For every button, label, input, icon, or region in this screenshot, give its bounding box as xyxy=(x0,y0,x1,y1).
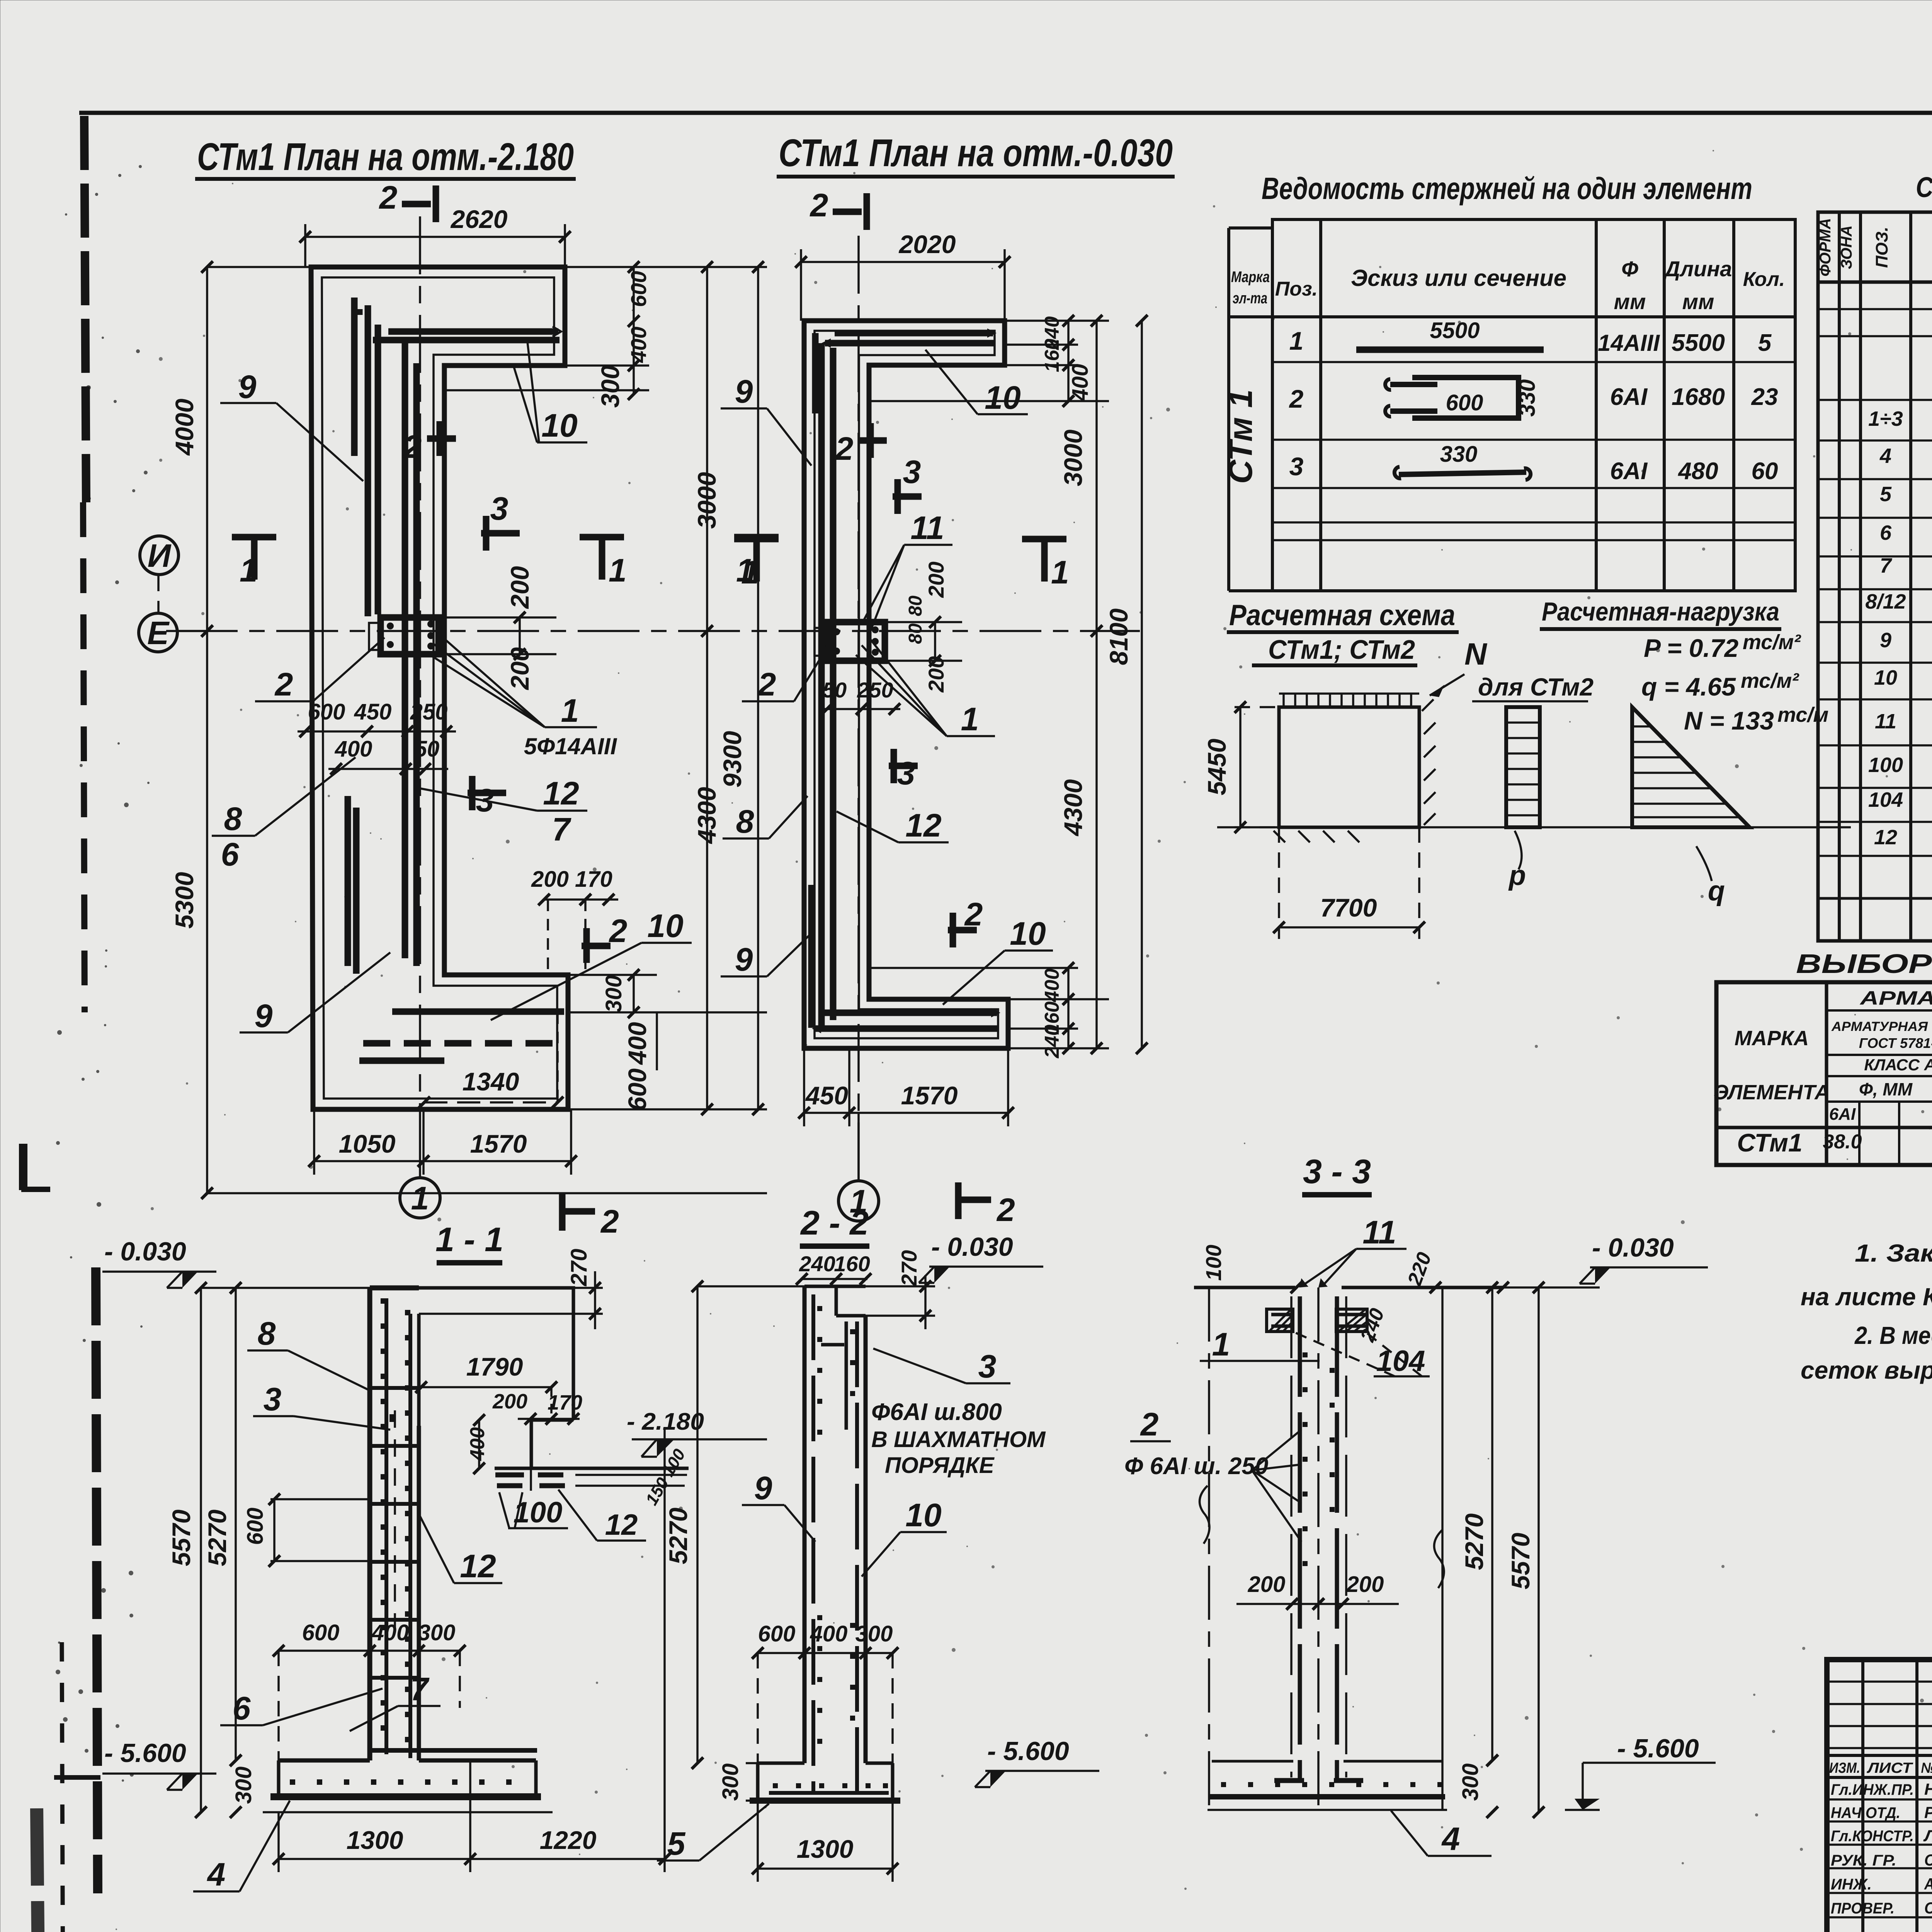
plan2 grid axis 1 xyxy=(857,236,860,1181)
svg-text:АРМАТУРНЫЕ ИЗДЕЛИЯ: АРМАТУРНЫЕ ИЗДЕЛИЯ xyxy=(1859,987,1932,1009)
plan1 section2 marker top xyxy=(379,179,436,222)
spec rows data xyxy=(1868,407,1932,430)
svg-text:- 0.030: - 0.030 xyxy=(931,1232,1013,1262)
plan2 marker 3 mid xyxy=(893,454,922,514)
svg-text:5500: 5500 xyxy=(1672,330,1725,356)
plan2 marker 2 mid xyxy=(835,423,887,467)
svg-text:104: 104 xyxy=(1868,788,1903,811)
svg-text:10: 10 xyxy=(647,908,683,944)
svg-text:1: 1 xyxy=(411,1180,429,1216)
svg-text:14АIII: 14АIII xyxy=(1598,330,1660,356)
plan2 dim 2020 top xyxy=(795,230,1010,321)
svg-text:7700: 7700 xyxy=(1320,893,1377,922)
section2 label 3 f6AI xyxy=(871,1348,1046,1478)
svg-text:1300: 1300 xyxy=(797,1835,854,1863)
svg-text:2 - 2: 2 - 2 xyxy=(800,1204,869,1242)
vedomost row1 xyxy=(1289,318,1772,356)
svg-text:2: 2 xyxy=(403,429,422,465)
load diagram q xyxy=(1632,707,1750,906)
svg-text:10: 10 xyxy=(541,407,577,444)
svg-text:400: 400 xyxy=(810,1621,848,1646)
svg-text:- 0.030: - 0.030 xyxy=(104,1237,186,1266)
svg-text:160: 160 xyxy=(1041,339,1063,372)
plan2 rebar top flange xyxy=(821,328,997,348)
plan2 rebar web xyxy=(811,333,833,1028)
section1 wall and slab outline xyxy=(263,1288,689,1812)
section1 inner rebar lines xyxy=(371,1298,537,1758)
svg-text:12: 12 xyxy=(543,775,579,811)
section3 embedded plates xyxy=(1267,1305,1389,1345)
svg-text:мм: мм xyxy=(1614,289,1646,314)
svg-text:3000: 3000 xyxy=(1059,429,1087,486)
grid bubble И xyxy=(140,536,179,612)
svg-text:1220: 1220 xyxy=(540,1826,597,1854)
section3 level -0.030 xyxy=(1580,1233,1708,1284)
svg-text:Расчетная-нагрузка: Расчетная-нагрузка xyxy=(1542,597,1779,626)
svg-text:80: 80 xyxy=(905,623,926,644)
plan1 marker 3 lower xyxy=(468,776,514,818)
svg-text:12: 12 xyxy=(1874,826,1897,849)
plan1 dims 600 450 250 xyxy=(298,699,456,775)
svg-text:400: 400 xyxy=(626,327,651,363)
svg-text:- 0.030: - 0.030 xyxy=(1592,1233,1674,1262)
svg-text:5500: 5500 xyxy=(1430,318,1480,343)
svg-text:ЗОНА: ЗОНА xyxy=(1838,225,1855,269)
plan1 label 9 lower xyxy=(240,952,390,1034)
svg-text:4: 4 xyxy=(1441,1821,1460,1857)
section1 dim 270 xyxy=(566,1249,603,1329)
svg-text:ЭЛЕМЕНТА: ЭЛЕМЕНТА xyxy=(1714,1081,1830,1104)
svg-text:12: 12 xyxy=(460,1548,496,1584)
section1 dims 200 170 xyxy=(492,1390,582,1425)
svg-text:ЛИСТ: ЛИСТ xyxy=(1866,1760,1913,1776)
svg-text:2. В местах технологических: 2. В местах технологических отверстий ар… xyxy=(1854,1321,1932,1349)
section3 break marks xyxy=(1200,1486,1444,1588)
plan1 section1 T markers xyxy=(232,537,276,588)
svg-text:ЛАПКИН: ЛАПКИН xyxy=(1923,1827,1932,1845)
svg-text:200: 200 xyxy=(1248,1572,1286,1597)
svg-text:11: 11 xyxy=(1362,1214,1396,1250)
svg-text:5270: 5270 xyxy=(664,1507,692,1564)
raschet dim 7700 xyxy=(1273,827,1425,939)
section1 label 3 xyxy=(253,1381,390,1430)
svg-text:p: p xyxy=(1508,860,1526,891)
svg-text:СТм1 План на отм.-0.030: СТм1 План на отм.-0.030 xyxy=(779,131,1173,175)
svg-text:ГОСТ 5781-75: ГОСТ 5781-75 xyxy=(1859,1035,1932,1051)
svg-text:тс/м²: тс/м² xyxy=(1741,669,1799,692)
nagruzka values xyxy=(1641,631,1828,735)
svg-text:11: 11 xyxy=(910,510,944,546)
plan2 right dims 160 240 400 bottom xyxy=(804,962,1109,1058)
svg-text:Марка: Марка xyxy=(1231,269,1270,286)
svg-text:3: 3 xyxy=(897,755,915,791)
plan1 grid axis E line xyxy=(176,630,1140,632)
svg-text:240: 240 xyxy=(1356,1305,1389,1345)
plan1 right dim 9300 xyxy=(568,261,767,1115)
svg-text:100: 100 xyxy=(1201,1245,1226,1281)
titleblock left columns xyxy=(1827,1660,1932,1932)
svg-text:КЛАСС А-I: КЛАСС А-I xyxy=(1864,1056,1932,1074)
section2 level -0.030 xyxy=(919,1232,1043,1283)
vedomost row2 sketch xyxy=(1289,378,1778,418)
svg-text:160: 160 xyxy=(834,1252,870,1276)
vedomost row3 sketch xyxy=(1289,442,1778,485)
svg-text:Длина: Длина xyxy=(1663,257,1732,281)
svg-text:9300: 9300 xyxy=(718,731,747,787)
svg-text:4300: 4300 xyxy=(1059,779,1087,837)
section2 dim 270 xyxy=(866,1250,935,1329)
svg-text:11: 11 xyxy=(1875,710,1896,733)
section2 label 5 xyxy=(657,1804,769,1862)
svg-text:Поз.: Поз. xyxy=(1275,278,1318,300)
section3 wall rebar dots xyxy=(1303,1352,1335,1566)
section3 label 104 xyxy=(1294,1332,1430,1378)
svg-text:Ведомость стержней на один эле: Ведомость стержней на один элемент xyxy=(1262,171,1752,206)
svg-text:200: 200 xyxy=(492,1390,527,1413)
plan2 bottom dim 450 1570 xyxy=(798,1048,1014,1126)
svg-text:300: 300 xyxy=(718,1764,743,1801)
svg-text:600: 600 xyxy=(623,1068,651,1111)
svg-text:240: 240 xyxy=(1041,1025,1063,1059)
svg-text:8/12: 8/12 xyxy=(1865,590,1906,613)
svg-text:ФОРМА: ФОРМА xyxy=(1817,218,1834,276)
grid bubble Е xyxy=(139,613,177,652)
svg-text:5: 5 xyxy=(1758,330,1772,356)
svg-text:3000: 3000 xyxy=(692,472,721,529)
plan1 dims 200 200 column xyxy=(440,566,556,690)
plan2 label 2 column xyxy=(742,641,831,702)
section1 wall rungs xyxy=(372,1388,417,1678)
plan2 label 11 xyxy=(862,510,952,634)
plan1 marker 2 bottom xyxy=(562,1194,619,1240)
svg-text:6: 6 xyxy=(1880,521,1892,544)
svg-text:7: 7 xyxy=(1880,554,1893,577)
svg-text:5: 5 xyxy=(1880,483,1892,506)
svg-text:7: 7 xyxy=(410,1671,430,1707)
svg-text:РУК. ГР.: РУК. ГР. xyxy=(1831,1852,1896,1869)
section1 label 100 12 xyxy=(499,1490,646,1541)
vedomost headers xyxy=(1231,257,1785,314)
svg-text:1: 1 xyxy=(240,552,258,588)
svg-text:ПОЗ.: ПОЗ. xyxy=(1872,227,1891,268)
section1 label 4 xyxy=(193,1801,290,1893)
section1 left dims 5570 5270 xyxy=(167,1282,370,1818)
svg-text:6АI: 6АI xyxy=(1829,1105,1856,1124)
svg-text:9: 9 xyxy=(238,369,257,405)
svg-text:Ф 6АI ш. 250: Ф 6АI ш. 250 xyxy=(1124,1453,1268,1480)
svg-text:Гл.КОНСТР.: Гл.КОНСТР. xyxy=(1831,1828,1914,1845)
svg-text:НАЗАРОВ: НАЗАРОВ xyxy=(1924,1780,1932,1798)
plan1 label 8 6 xyxy=(212,757,355,872)
svg-text:2: 2 xyxy=(1140,1406,1159,1442)
titleblock signature rows xyxy=(1831,1780,1932,1917)
plan2 label 10 lower xyxy=(943,915,1053,1005)
svg-text:2: 2 xyxy=(757,666,776,702)
raschet schema title xyxy=(1227,599,1459,665)
section3 right dims 5270 5570 xyxy=(1460,1282,1544,1818)
sheet frame left scan edge xyxy=(21,116,100,1932)
svg-text:1790: 1790 xyxy=(466,1352,523,1381)
svg-text:1: 1 xyxy=(1212,1326,1230,1362)
svg-text:АРМАТУРНАЯ СТАЛЬ: АРМАТУРНАЯ СТАЛЬ xyxy=(1831,1019,1932,1034)
section3 label 4 xyxy=(1391,1811,1492,1857)
svg-text:4: 4 xyxy=(207,1856,226,1893)
svg-text:270: 270 xyxy=(566,1249,592,1287)
svg-text:12: 12 xyxy=(605,1509,638,1541)
svg-text:12: 12 xyxy=(905,807,941,844)
svg-text:АЙЗЕНШТАТ: АЙЗЕНШТАТ xyxy=(1924,1874,1932,1893)
section3 label 11 xyxy=(1299,1214,1406,1287)
section1 label 600 xyxy=(243,1493,371,1567)
svg-text:250: 250 xyxy=(410,699,448,724)
vyborka headers xyxy=(1714,987,1932,1124)
svg-text:2: 2 xyxy=(996,1192,1015,1228)
plan2 label 9 lower xyxy=(721,935,810,978)
svg-text:Расчетная схема: Расчетная схема xyxy=(1229,599,1455,632)
svg-text:q = 4.65: q = 4.65 xyxy=(1641,672,1736,701)
svg-text:3: 3 xyxy=(978,1348,997,1384)
plan2 label 1 fan xyxy=(856,636,995,737)
svg-text:6: 6 xyxy=(221,836,240,872)
svg-text:5570: 5570 xyxy=(167,1509,196,1566)
svg-text:9: 9 xyxy=(255,998,273,1034)
plan2 right dim 3000 8100 4300 xyxy=(1059,315,1148,1054)
svg-text:300: 300 xyxy=(601,975,626,1013)
svg-text:1680: 1680 xyxy=(1672,384,1725,410)
svg-text:2: 2 xyxy=(274,666,293,702)
plan1 dim 1340 xyxy=(418,1012,563,1108)
svg-text:2: 2 xyxy=(810,187,828,223)
svg-text:1050: 1050 xyxy=(339,1129,396,1158)
plan1 label 1 5ф14АIII xyxy=(427,634,617,759)
plan1 column section at grid E xyxy=(369,617,439,654)
svg-text:5450: 5450 xyxy=(1202,738,1231,795)
raschet schema square xyxy=(1274,694,1435,842)
svg-text:240: 240 xyxy=(799,1252,835,1276)
svg-text:9: 9 xyxy=(754,1470,772,1506)
svg-text:ПРОВЕР.: ПРОВЕР. xyxy=(1831,1900,1895,1917)
svg-text:10: 10 xyxy=(1874,666,1897,689)
plan1 left dim line xyxy=(166,261,767,1199)
svg-text:1 - 1: 1 - 1 xyxy=(435,1220,503,1259)
plan1 grid bubble 1 xyxy=(400,1161,440,1218)
svg-text:5: 5 xyxy=(667,1825,686,1862)
svg-text:300: 300 xyxy=(418,1620,456,1645)
svg-text:В ШАХМАТНОМ: В ШАХМАТНОМ xyxy=(871,1427,1046,1452)
plan2 dims 200 200 80 80 column xyxy=(885,561,962,692)
sheet frame top border xyxy=(79,111,1932,115)
section3 wall lines xyxy=(1209,1287,1442,1812)
section1 bottom dims 1300 1220 xyxy=(273,1430,670,1872)
section2 label 10 xyxy=(862,1497,947,1577)
svg-text:9: 9 xyxy=(735,941,753,978)
spec table grid xyxy=(1818,212,1932,941)
svg-text:Эскиз или сечение: Эскиз или сечение xyxy=(1351,265,1566,291)
svg-text:1. Закладные изделия поз.: 1. Закладные изделия поз. 100 и 104 зама… xyxy=(1855,1239,1932,1267)
section3 title xyxy=(1302,1152,1372,1195)
svg-text:1570: 1570 xyxy=(470,1129,527,1158)
svg-text:1570: 1570 xyxy=(901,1081,958,1110)
svg-text:38.0: 38.0 xyxy=(1823,1131,1862,1153)
plan2 wall outline xyxy=(804,321,1008,1048)
plan1 bottom dim 1050 1570 xyxy=(308,1109,577,1175)
svg-text:1: 1 xyxy=(741,554,759,590)
svg-text:600: 600 xyxy=(302,1620,340,1645)
spec headers xyxy=(1817,218,1932,276)
svg-text:4000: 4000 xyxy=(170,398,199,456)
svg-text:1: 1 xyxy=(1289,327,1304,355)
section1 dim 300 xyxy=(230,1755,256,1818)
svg-text:300: 300 xyxy=(855,1621,893,1646)
svg-text:80: 80 xyxy=(905,595,926,616)
title plan2 xyxy=(777,131,1175,177)
svg-text:23: 23 xyxy=(1751,384,1778,410)
svg-text:- 5.600: - 5.600 xyxy=(104,1738,186,1768)
svg-text:СТм1: СТм1 xyxy=(1737,1128,1802,1157)
vedomost table grid xyxy=(1229,219,1795,591)
section3 level -5.600 xyxy=(1565,1734,1716,1810)
plan1 label 10 top xyxy=(514,342,587,444)
svg-text:3 - 3: 3 - 3 xyxy=(1303,1152,1371,1190)
svg-text:2: 2 xyxy=(835,430,854,467)
svg-text:на листе КЖ-8.: на листе КЖ-8. xyxy=(1801,1283,1932,1311)
section1 labels 6 7 xyxy=(220,1671,440,1731)
svg-text:НАЧ.ОТД.: НАЧ.ОТД. xyxy=(1831,1804,1900,1821)
plan1 label 12 7 xyxy=(419,775,587,847)
section1 label 12 mid xyxy=(419,1515,502,1584)
svg-text:- 5.600: - 5.600 xyxy=(987,1736,1069,1766)
section2 level -5.600 xyxy=(975,1736,1099,1787)
section1 level -0.030 xyxy=(102,1237,216,1288)
svg-text:10: 10 xyxy=(985,379,1020,416)
plan1 rebar mesh top flange xyxy=(359,309,561,340)
svg-text:600: 600 xyxy=(758,1621,796,1646)
raschet nagruzka title xyxy=(1540,597,1781,629)
svg-text:10: 10 xyxy=(905,1497,941,1533)
plan2 marker 2 bottom xyxy=(958,1182,1015,1228)
svg-text:эл-та: эл-та xyxy=(1233,290,1267,307)
plan2 marker 3 lower xyxy=(889,749,918,791)
plan1 dims 200 170 xyxy=(531,867,618,975)
svg-text:Гл.ИНЖ.ПР.: Гл.ИНЖ.ПР. xyxy=(1831,1781,1914,1798)
svg-text:3: 3 xyxy=(903,454,921,490)
plan1 grid axis 1 xyxy=(419,216,421,1173)
plan2 marker 2 lower xyxy=(948,896,983,947)
svg-text:6: 6 xyxy=(233,1690,251,1726)
plan1 marker 2 lower xyxy=(582,913,627,963)
svg-text:300: 300 xyxy=(231,1767,256,1804)
section1 dim 1790 xyxy=(415,1352,557,1420)
svg-text:q: q xyxy=(1708,876,1725,906)
svg-text:480: 480 xyxy=(1677,458,1718,485)
plan1 label 9 top xyxy=(220,369,363,481)
section2 title xyxy=(796,1204,871,1285)
section1 level -5.600 xyxy=(102,1738,216,1790)
svg-text:2620: 2620 xyxy=(450,205,508,233)
svg-text:8: 8 xyxy=(736,803,754,840)
section1 dims 600 400 300 xyxy=(273,1620,466,1760)
section1 title xyxy=(435,1220,503,1263)
svg-text:Спецификация элементов монолит: Спецификация элементов монолитной констр… xyxy=(1916,171,1932,203)
svg-text:60: 60 xyxy=(1752,458,1778,485)
raschet dim 5450 xyxy=(1202,701,1279,833)
svg-text:СТм1 План на отм.-2.180: СТм1 План на отм.-2.180 xyxy=(197,135,574,179)
svg-text:220: 220 xyxy=(1403,1249,1436,1289)
svg-text:6АI: 6АI xyxy=(1610,384,1648,410)
section1 level -2.180 xyxy=(466,1408,767,1509)
plan2 column section at grid E xyxy=(815,622,885,661)
svg-text:3: 3 xyxy=(490,490,509,527)
svg-text:1: 1 xyxy=(561,692,579,729)
svg-text:Ф, ММ: Ф, ММ xyxy=(1859,1079,1913,1099)
vedomost marka CTm1 rotated xyxy=(1222,389,1259,484)
plan2 dims 50 250 xyxy=(821,678,900,715)
svg-text:600: 600 xyxy=(308,699,345,724)
svg-text:50: 50 xyxy=(415,736,440,762)
svg-text:СТм1; СТм2: СТм1; СТм2 xyxy=(1268,634,1415,665)
svg-text:200 170: 200 170 xyxy=(531,867,612,892)
svg-text:8100: 8100 xyxy=(1104,608,1133,665)
plan1 label 10 lower xyxy=(491,908,692,1020)
vyborka title xyxy=(1796,949,1932,979)
svg-text:9: 9 xyxy=(1880,629,1891,652)
plan2 label 8 xyxy=(723,796,808,840)
svg-text:170: 170 xyxy=(548,1391,582,1414)
svg-text:1: 1 xyxy=(961,701,979,737)
section2 left dim 5270 xyxy=(664,1281,804,1769)
svg-text:ИНЖ.: ИНЖ. xyxy=(1831,1876,1872,1893)
section2 label 9 xyxy=(742,1470,815,1542)
svg-text:Ф6АI ш.800: Ф6АI ш.800 xyxy=(871,1399,1002,1425)
plan1 wall outline xyxy=(311,267,568,1109)
section2 wall outline xyxy=(750,1286,900,1801)
svg-text:№ДОКУМЕНТА: №ДОКУМЕНТА xyxy=(1921,1760,1932,1776)
svg-text:200: 200 xyxy=(924,561,948,598)
vyborka grid xyxy=(1716,982,1932,1165)
svg-text:400: 400 xyxy=(1068,364,1093,402)
svg-text:тс/м: тс/м xyxy=(1777,703,1828,726)
plan2 rebar bottom flange xyxy=(812,1008,1000,1033)
svg-text:N: N xyxy=(1464,637,1488,671)
svg-text:1300: 1300 xyxy=(347,1826,403,1854)
svg-text:8: 8 xyxy=(258,1315,276,1352)
section3 footing xyxy=(1207,1761,1447,1810)
svg-text:- 5.600: - 5.600 xyxy=(1617,1734,1699,1763)
svg-text:2: 2 xyxy=(600,1203,619,1240)
plan1 inset face line xyxy=(322,277,557,1099)
svg-text:СМИРНОВА: СМИРНОВА xyxy=(1924,1851,1932,1869)
svg-text:200: 200 xyxy=(1346,1572,1384,1597)
plan1 right dim 3000 4300 xyxy=(692,261,721,1115)
svg-text:450: 450 xyxy=(354,699,392,724)
svg-text:Е: Е xyxy=(147,615,170,651)
svg-text:8: 8 xyxy=(224,801,242,837)
svg-text:450: 450 xyxy=(805,1081,848,1110)
svg-text:5270: 5270 xyxy=(1460,1513,1488,1570)
plan2 grid bubble 1 xyxy=(838,1113,879,1221)
svg-text:тс/м²: тс/м² xyxy=(1743,631,1801,654)
svg-text:Ф: Ф xyxy=(1621,257,1638,281)
plan2 inset face line xyxy=(815,331,998,1038)
svg-text:270: 270 xyxy=(897,1250,921,1286)
svg-text:3: 3 xyxy=(264,1381,282,1417)
svg-text:4: 4 xyxy=(1879,444,1891,468)
svg-text:ВЫБОРКА СТАЛИ НА ОДИН ЭЛЕМ: ВЫБОРКА СТАЛИ НА ОДИН ЭЛЕМЕНТ, КГ xyxy=(1796,949,1932,979)
svg-text:СМИРНОВА: СМИРНОВА xyxy=(1924,1899,1932,1917)
svg-text:мм: мм xyxy=(1682,289,1714,314)
svg-text:4300: 4300 xyxy=(692,787,721,844)
plan1 rebar mesh web verticals xyxy=(348,298,417,974)
